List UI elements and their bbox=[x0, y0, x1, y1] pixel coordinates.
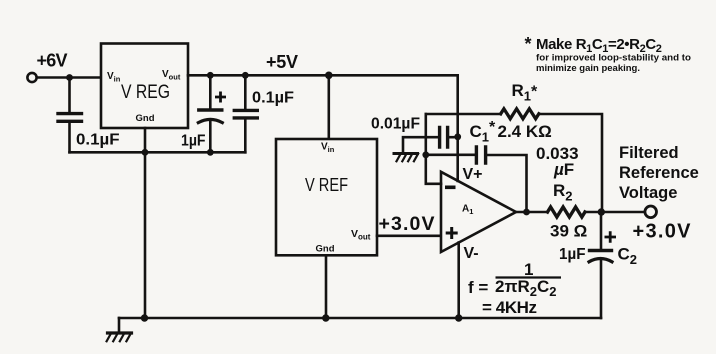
capacitor 0.01uF lead from ground bbox=[403, 137, 438, 153]
label plus 1uF bbox=[215, 92, 226, 103]
svg-text:+5V: +5V bbox=[266, 52, 298, 72]
capacitor 0.01uF lead right bbox=[449, 136, 458, 139]
wire +6V terminal to VREG Vin bbox=[37, 76, 101, 79]
wire VREG Vout +5V rail bbox=[188, 74, 458, 77]
svg-text:= 4KHz: = 4KHz bbox=[482, 298, 537, 317]
node junction filtered output bbox=[598, 208, 605, 215]
capacitor 1uF plates polarized bbox=[199, 108, 222, 111]
svg-text:Gnd: Gnd bbox=[136, 113, 155, 124]
label V REF bbox=[305, 174, 348, 195]
svg-text:0.1µF: 0.1µF bbox=[252, 90, 294, 107]
capacitor 1uF lead top bbox=[209, 75, 212, 108]
capacitor 0.1uF second lead bottom bbox=[244, 120, 247, 153]
capacitor 0.1uF input plates bbox=[58, 114, 82, 122]
svg-text:R1*: R1* bbox=[512, 81, 539, 104]
node junction VREG gnd on rail bbox=[141, 314, 148, 321]
svg-text:Reference: Reference bbox=[619, 164, 699, 182]
label plus input bbox=[446, 227, 458, 239]
resistor R1 zigzag bbox=[501, 109, 539, 119]
node junction VREF gnd on rail bbox=[322, 314, 329, 321]
svg-text:0.01µF: 0.01µF bbox=[371, 116, 420, 133]
svg-text:+3.0V: +3.0V bbox=[379, 213, 435, 235]
svg-text:V-: V- bbox=[464, 245, 479, 262]
svg-text:Filtered: Filtered bbox=[619, 144, 679, 162]
wire op-amp output to R2 bbox=[516, 211, 548, 214]
node junction C1 at op-amp output bbox=[523, 209, 530, 216]
node junction VREG gnd on bus bbox=[142, 149, 149, 156]
node junction at +6V / 0.1uF bbox=[66, 74, 73, 81]
svg-text:for improved loop-stability an: for improved loop-stability and to bbox=[536, 53, 692, 63]
wire VREF Gnd down to ground rail bbox=[325, 255, 328, 318]
svg-text:2πR2C2: 2πR2C2 bbox=[495, 277, 557, 299]
capacitor C2 lead top bbox=[600, 212, 603, 249]
node junction 0.1uF on +5V rail bbox=[242, 72, 249, 79]
svg-text:f =: f = bbox=[468, 278, 488, 297]
formula fraction bar bbox=[496, 276, 562, 278]
svg-text:V REG: V REG bbox=[121, 81, 170, 103]
capacitor C1 plates bbox=[476, 147, 485, 163]
svg-text:R2: R2 bbox=[553, 181, 573, 204]
node junction VREF Vin on +5V rail bbox=[325, 72, 333, 80]
ground symbol at 0.01uF bbox=[394, 154, 418, 162]
capacitor 0.1uF second lead top bbox=[244, 75, 247, 108]
capacitor C2 lead bottom to ground rail bbox=[600, 260, 603, 318]
svg-text:39 Ω: 39 Ω bbox=[550, 222, 587, 241]
label V REG bbox=[121, 81, 170, 103]
wire V- down to ground rail bbox=[457, 243, 460, 319]
label minus input bbox=[445, 186, 456, 190]
capacitor 0.1uF input lead bottom bbox=[68, 123, 71, 152]
capacitor 0.01uF plates bbox=[440, 127, 448, 147]
wire VREF Vout to op-amp plus input bbox=[377, 235, 441, 238]
resistor R2 zigzag bbox=[548, 207, 585, 217]
wire VREF Vin up to +5V rail bbox=[327, 75, 330, 139]
capacitor 1uF lead bottom bbox=[209, 121, 212, 152]
wire R2 to output terminal bbox=[585, 211, 645, 214]
node junction 0.01uF on V+ line bbox=[454, 133, 461, 140]
svg-text:V REF: V REF bbox=[305, 174, 348, 195]
wire V+ supply from +5V rail into op-amp top bbox=[456, 75, 459, 181]
regulator U-VREG box bbox=[101, 44, 188, 129]
svg-text:Gnd: Gnd bbox=[316, 244, 335, 255]
capacitor 0.1uF second plates bbox=[234, 110, 257, 118]
capacitor C2 plates polarized bbox=[590, 249, 612, 252]
svg-text:1µF: 1µF bbox=[559, 246, 586, 263]
terminal filtered output bbox=[645, 206, 657, 218]
label plus C2 bbox=[605, 231, 617, 242]
wire capacitor-bottoms bus bbox=[70, 151, 246, 154]
svg-text:C2: C2 bbox=[618, 245, 638, 268]
wire ground rail bbox=[119, 317, 601, 320]
resistor R1 leads bbox=[426, 114, 602, 212]
svg-text:+3.0V: +3.0V bbox=[633, 221, 692, 243]
node junction 1uF bottom on bus bbox=[207, 149, 214, 156]
svg-text:0.1µF: 0.1µF bbox=[76, 132, 120, 149]
svg-text:minimize gain peaking.: minimize gain peaking. bbox=[536, 63, 640, 73]
wire rail stub to ground symbol bbox=[118, 318, 121, 333]
node junction V- on rail bbox=[455, 314, 462, 321]
ground symbol main bbox=[107, 333, 132, 341]
op-amp A1 triangle bbox=[441, 172, 516, 252]
svg-text:+6V: +6V bbox=[37, 51, 68, 71]
svg-text:Voltage: Voltage bbox=[619, 184, 677, 202]
svg-text:C1*2.4 KΩ: C1*2.4 KΩ bbox=[470, 119, 552, 145]
node junction 1uF on +5V rail bbox=[207, 72, 214, 79]
regulator U-VREF box bbox=[276, 139, 377, 255]
svg-text:µF: µF bbox=[553, 160, 574, 179]
terminal +6V input bbox=[27, 73, 36, 82]
svg-text:*: * bbox=[525, 34, 532, 54]
svg-text:1µF: 1µF bbox=[181, 133, 206, 150]
wire C1 left lead bbox=[426, 154, 475, 157]
capacitor 0.1uF input lead top bbox=[68, 78, 71, 113]
svg-text:V+: V+ bbox=[463, 166, 483, 183]
node junction C1 on inverting line bbox=[422, 151, 429, 158]
wire VREG Gnd down to ground rail bbox=[144, 128, 147, 318]
wire inverting-input vertical bbox=[426, 114, 441, 184]
wire C1 right lead to op-amp output bbox=[487, 155, 527, 212]
